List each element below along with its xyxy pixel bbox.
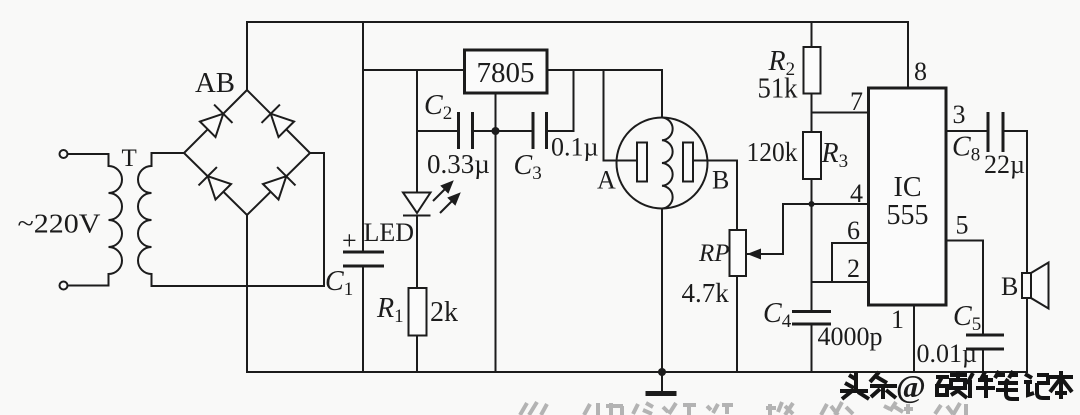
wire top terminal lead xyxy=(68,153,109,155)
LED D1 xyxy=(403,193,431,216)
svg-text:RP: RP xyxy=(698,240,730,267)
wire 7805 ground drop xyxy=(495,93,497,372)
watermark 头条@硬件笔记本 xyxy=(840,371,1073,399)
wire RP to ground bus xyxy=(736,276,738,372)
件 xyxy=(967,372,995,398)
regulator 7805 box xyxy=(465,50,548,93)
svg-text:2k: 2k xyxy=(430,297,458,328)
wire bridge bottom drop xyxy=(246,215,248,372)
记 xyxy=(1024,374,1050,398)
diode bottom-right xyxy=(262,167,296,201)
wire pin1 drop xyxy=(913,305,915,372)
wire pin5 xyxy=(946,240,983,242)
sensor electrode B plate xyxy=(683,143,693,182)
wire R2 to R3 xyxy=(811,94,813,133)
wire C3 right riser to output xyxy=(547,70,574,131)
wire C1 riser from top bus xyxy=(362,22,364,252)
node junction R3/pin4 xyxy=(809,201,815,207)
wire pin5 drop to C5 xyxy=(982,241,984,336)
potentiometer RP xyxy=(730,230,747,276)
speaker B xyxy=(1022,263,1049,309)
svg-text:IC: IC xyxy=(894,172,922,203)
wire B drop to RP xyxy=(736,161,738,231)
svg-text:~220V: ~220V xyxy=(18,209,102,239)
wire bottom ground bus xyxy=(247,371,1027,373)
capacitor C8 plates xyxy=(988,112,1003,152)
capacitor C4 plates xyxy=(792,312,831,325)
wire pin3 xyxy=(946,130,988,132)
svg-text:4: 4 xyxy=(850,179,863,208)
sensor electrode A plate xyxy=(637,143,647,182)
wire LED branch riser xyxy=(416,70,418,193)
op-amp IC 555 box xyxy=(869,88,947,305)
svg-text:120k: 120k xyxy=(747,137,798,167)
LED light arrows xyxy=(433,182,459,213)
svg-text:5: 5 xyxy=(956,211,969,240)
svg-text:AB: AB xyxy=(195,68,235,99)
wire R3 down to C4 xyxy=(811,179,813,312)
wire bottom terminal lead xyxy=(68,285,109,287)
watermark gray bottom row xyxy=(520,402,966,415)
resistor R2 xyxy=(804,47,821,94)
wire secondary bottom to bridge right vertex xyxy=(152,153,325,286)
diode top-left xyxy=(199,105,233,139)
wire bridge top riser xyxy=(246,22,248,90)
wire pin6 bracket xyxy=(832,243,869,282)
transformer T secondary winding xyxy=(138,153,152,286)
svg-text:B: B xyxy=(712,166,729,195)
wire electrode B lead xyxy=(693,160,737,162)
svg-text:0.33µ: 0.33µ xyxy=(427,149,490,179)
capacitor C3 plates xyxy=(533,112,547,149)
svg-text:0.1µ: 0.1µ xyxy=(551,133,599,162)
头 xyxy=(840,372,869,399)
svg-text:A: A xyxy=(597,166,616,195)
svg-text:6: 6 xyxy=(847,216,860,245)
wire C1 bottom stub to ground bus xyxy=(362,266,364,372)
svg-text:51k: 51k xyxy=(758,74,798,105)
svg-text:4.7k: 4.7k xyxy=(682,278,730,308)
capacitor C1 plates xyxy=(343,252,384,266)
wire LED to R1 xyxy=(416,216,418,289)
wire 7805 output xyxy=(547,69,662,71)
wire bridge diamond xyxy=(184,90,310,215)
svg-text:3: 3 xyxy=(953,100,966,129)
svg-text:7805: 7805 xyxy=(477,57,535,89)
本 xyxy=(1050,371,1073,399)
硬 xyxy=(936,371,967,398)
gas sensor tube xyxy=(617,118,708,209)
capacitor C2 plates xyxy=(459,112,473,149)
terminal top xyxy=(60,150,68,158)
resistor R3 xyxy=(803,132,821,179)
svg-text:@: @ xyxy=(896,368,926,404)
svg-text:+: + xyxy=(342,226,357,255)
svg-text:22µ: 22µ xyxy=(984,150,1025,179)
wire 7805 input xyxy=(363,69,465,71)
wire pin7 xyxy=(812,112,869,114)
node junction at C2/C3 xyxy=(492,127,500,135)
wire sensor heater riser xyxy=(661,70,663,118)
wire C2 to C3 xyxy=(473,130,534,132)
svg-text:8: 8 xyxy=(914,57,927,86)
条 xyxy=(870,372,897,399)
ground xyxy=(646,368,677,394)
svg-text:0.01µ: 0.01µ xyxy=(917,339,978,368)
wire C4 to ground bus xyxy=(811,324,813,372)
wire pin2 xyxy=(812,281,869,283)
svg-text:7: 7 xyxy=(850,87,863,116)
terminal bottom xyxy=(60,282,68,290)
svg-text:555: 555 xyxy=(887,200,929,231)
diode bottom-left xyxy=(199,167,233,201)
transformer T primary winding xyxy=(109,154,123,286)
笔 xyxy=(995,371,1019,399)
capacitor C5 plates xyxy=(966,335,1004,349)
wire secondary top to bridge left vertex xyxy=(152,152,185,154)
svg-text:LED: LED xyxy=(364,218,415,247)
sensor heater coil xyxy=(662,118,673,209)
svg-text:1: 1 xyxy=(891,305,904,334)
wire R1 to ground bus xyxy=(416,336,418,373)
wire pin8 riser xyxy=(907,22,909,88)
wire top +V bus xyxy=(247,21,908,23)
diode top-right xyxy=(262,105,296,139)
wire C2 left xyxy=(417,130,459,132)
wire C5 to ground bus xyxy=(982,349,984,372)
wire electrode A lead xyxy=(604,160,638,162)
resistor R1 xyxy=(409,288,427,336)
svg-text:2: 2 xyxy=(847,254,860,283)
wire electrode A riser xyxy=(603,70,605,161)
svg-text:B: B xyxy=(1001,272,1018,301)
wire sensor bottom to ground xyxy=(661,209,663,373)
wire R2 riser from bus xyxy=(811,22,813,47)
svg-text:4000p: 4000p xyxy=(818,322,883,351)
RP wiper arrowhead xyxy=(747,249,761,260)
svg-text:T: T xyxy=(122,145,137,172)
wire RP wiper to pin4 xyxy=(747,204,869,254)
wire C8 right to speaker drop xyxy=(1003,131,1027,372)
